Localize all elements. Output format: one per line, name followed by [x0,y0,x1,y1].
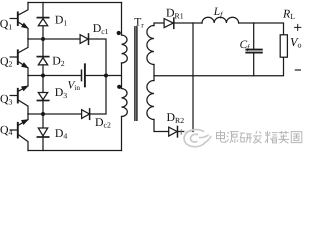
wire mid rail [28,75,81,77]
wire bottom rail [28,150,122,152]
transformer Tr primary upper winding [122,35,128,63]
wire DR2 output [178,131,185,133]
svg-text:Dc2: Dc2 [95,115,111,130]
svg-text:RL: RL [282,6,295,21]
svg-text:D4: D4 [55,126,68,141]
diode D4 [37,114,48,151]
svg-text:Vin: Vin [68,79,81,92]
minus sign output [295,69,300,71]
svg-text:DR2: DR2 [167,110,185,125]
transistor Q2 [10,39,28,76]
wire primary center tap [106,75,122,77]
wire rectifier riser [192,23,194,132]
wire primary center lead [121,63,123,89]
node B junction [41,112,45,116]
transistor Q4 [10,114,28,151]
wire node-A rail right of Dc1 [89,39,106,76]
inductor Lf [202,17,239,23]
wire output top rail [239,23,284,35]
wire rectified node [174,22,202,24]
wire top rail [28,2,122,4]
wire node-B rail [28,113,82,115]
svg-text:Q3: Q3 [0,92,13,107]
diode D2 [37,39,48,76]
transistor Q3 [10,76,28,115]
polarity dot primary lower [117,85,121,89]
svg-text:Tr: Tr [134,17,144,30]
svg-text:DR1: DR1 [166,6,184,21]
diode D1 [37,3,48,40]
svg-text:Q4: Q4 [0,122,13,137]
char 源 [227,132,239,143]
wire primary bottom lead [121,117,123,151]
diode D3 [37,76,48,115]
source Vin [82,64,85,86]
transformer core [135,27,137,121]
wire node-A rail [28,38,80,40]
svg-text:D2: D2 [52,53,65,68]
node A junction [41,37,45,41]
clamp diode Dc2 [82,109,90,119]
wire mid rail right of Vin [86,75,106,77]
transformer Tr secondary upper winding [147,26,154,65]
svg-text:D1: D1 [55,13,68,28]
rectifier diode DR1 [164,18,174,28]
svg-text:Lf: Lf [213,6,223,19]
clamp diode Dc1 [80,34,88,44]
watermark logo [181,130,211,147]
capacitor Cf [246,23,261,76]
node clamp junction [104,74,108,78]
plus sign output [295,24,301,30]
char 英 [278,131,289,143]
wire clamp bus lower [90,76,106,115]
char 圈 [291,132,302,143]
char 电 [217,130,226,142]
wire secondary top lead [154,23,164,26]
svg-text:Q2: Q2 [0,54,13,69]
svg-text:Dc1: Dc1 [93,21,109,36]
transformer Tr secondary lower winding [147,81,154,120]
node mid junction [41,74,45,78]
svg-text:Vo: Vo [290,35,302,50]
transistor Q1 [10,3,28,40]
transformer Tr primary lower winding [122,89,128,117]
char 精 [265,131,277,143]
wire secondary bottom lead [154,120,169,132]
watermark text 电源研发精英圈 [217,130,302,143]
svg-text:D3: D3 [55,85,68,100]
char 发 [253,131,262,143]
wire DR2 output faded under watermark [185,131,193,133]
wire output return [154,57,284,75]
wire secondary center lead [153,65,155,81]
polarity dot primary upper [117,31,121,35]
wire primary top lead [121,3,123,36]
resistor RL [280,35,287,57]
rectifier diode DR2 [169,126,178,136]
char 研 [240,133,252,143]
svg-text:Cf: Cf [240,39,251,52]
